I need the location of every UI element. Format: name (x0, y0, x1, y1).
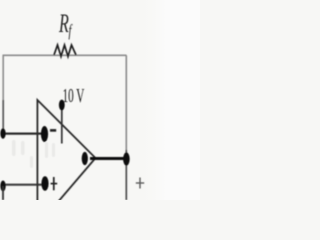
node B (bottom-left terminal) (0, 181, 5, 192)
paper background (0, 0, 200, 200)
wire: left vertical (feedback to inverting input) (2, 55, 4, 100)
plus marker (51, 177, 58, 190)
supply node dot (59, 100, 65, 111)
wire: inverting input horizontal (2, 132, 43, 134)
resistor Rf zigzag (54, 45, 76, 57)
op-amp U1 triangle (37, 100, 95, 226)
plus polarity marker (output) (136, 178, 144, 189)
output wire (90, 157, 126, 160)
minus marker (50, 129, 56, 132)
node A (junction feedback / inverting input) (0, 128, 5, 138)
output node dot at apex (82, 152, 88, 165)
wire: right vertical (output feedback) (125, 55, 127, 150)
wire: non-inverting input horizontal (2, 184, 44, 186)
label Rf (58, 9, 69, 38)
supply wire (10V pin) (61, 107, 63, 144)
wire: top feedback horizontal (3, 54, 127, 56)
wire: stub down from node B (2, 186, 4, 200)
junction dot output/feedback (123, 152, 130, 165)
inverting input node dot (41, 126, 48, 142)
label 10 V (63, 85, 85, 107)
svg-text:10 V: 10 V (63, 85, 85, 107)
non-inverting input node dot (41, 176, 48, 190)
ghost bleed-through smudges (12, 140, 55, 168)
svg-text:R: R (58, 9, 69, 38)
